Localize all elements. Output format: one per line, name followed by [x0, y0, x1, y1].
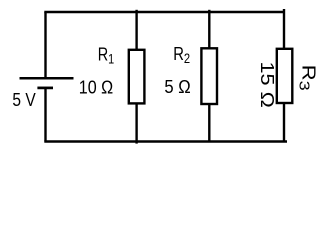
wire left branch upper (battery + to top bus) [44, 12, 46, 78]
resistor R3 body [277, 49, 293, 103]
wire R1 branch upper [135, 10, 137, 50]
resistor R2 body [201, 48, 217, 104]
resistor R1 body [129, 50, 145, 104]
battery BT1 long plate (positive) [20, 77, 74, 80]
wire R1 branch lower [135, 103, 137, 143]
wire R2 branch lower [208, 104, 210, 142]
wire top bus [44, 11, 284, 13]
wire bottom bus [44, 140, 287, 142]
wire left branch lower (battery - to bottom bus) [44, 88, 46, 142]
wire R3 branch upper (right side) [283, 9, 285, 49]
svg-text:5 Ω: 5 Ω [164, 76, 190, 97]
wire R3 branch lower (right side) [283, 103, 285, 142]
svg-text:5 V: 5 V [12, 90, 36, 111]
svg-text:10 Ω: 10 Ω [79, 76, 113, 97]
battery BT1 short plate (negative) [37, 87, 53, 90]
wire R2 branch upper [208, 10, 210, 49]
svg-text:15 Ω: 15 Ω [256, 62, 276, 108]
